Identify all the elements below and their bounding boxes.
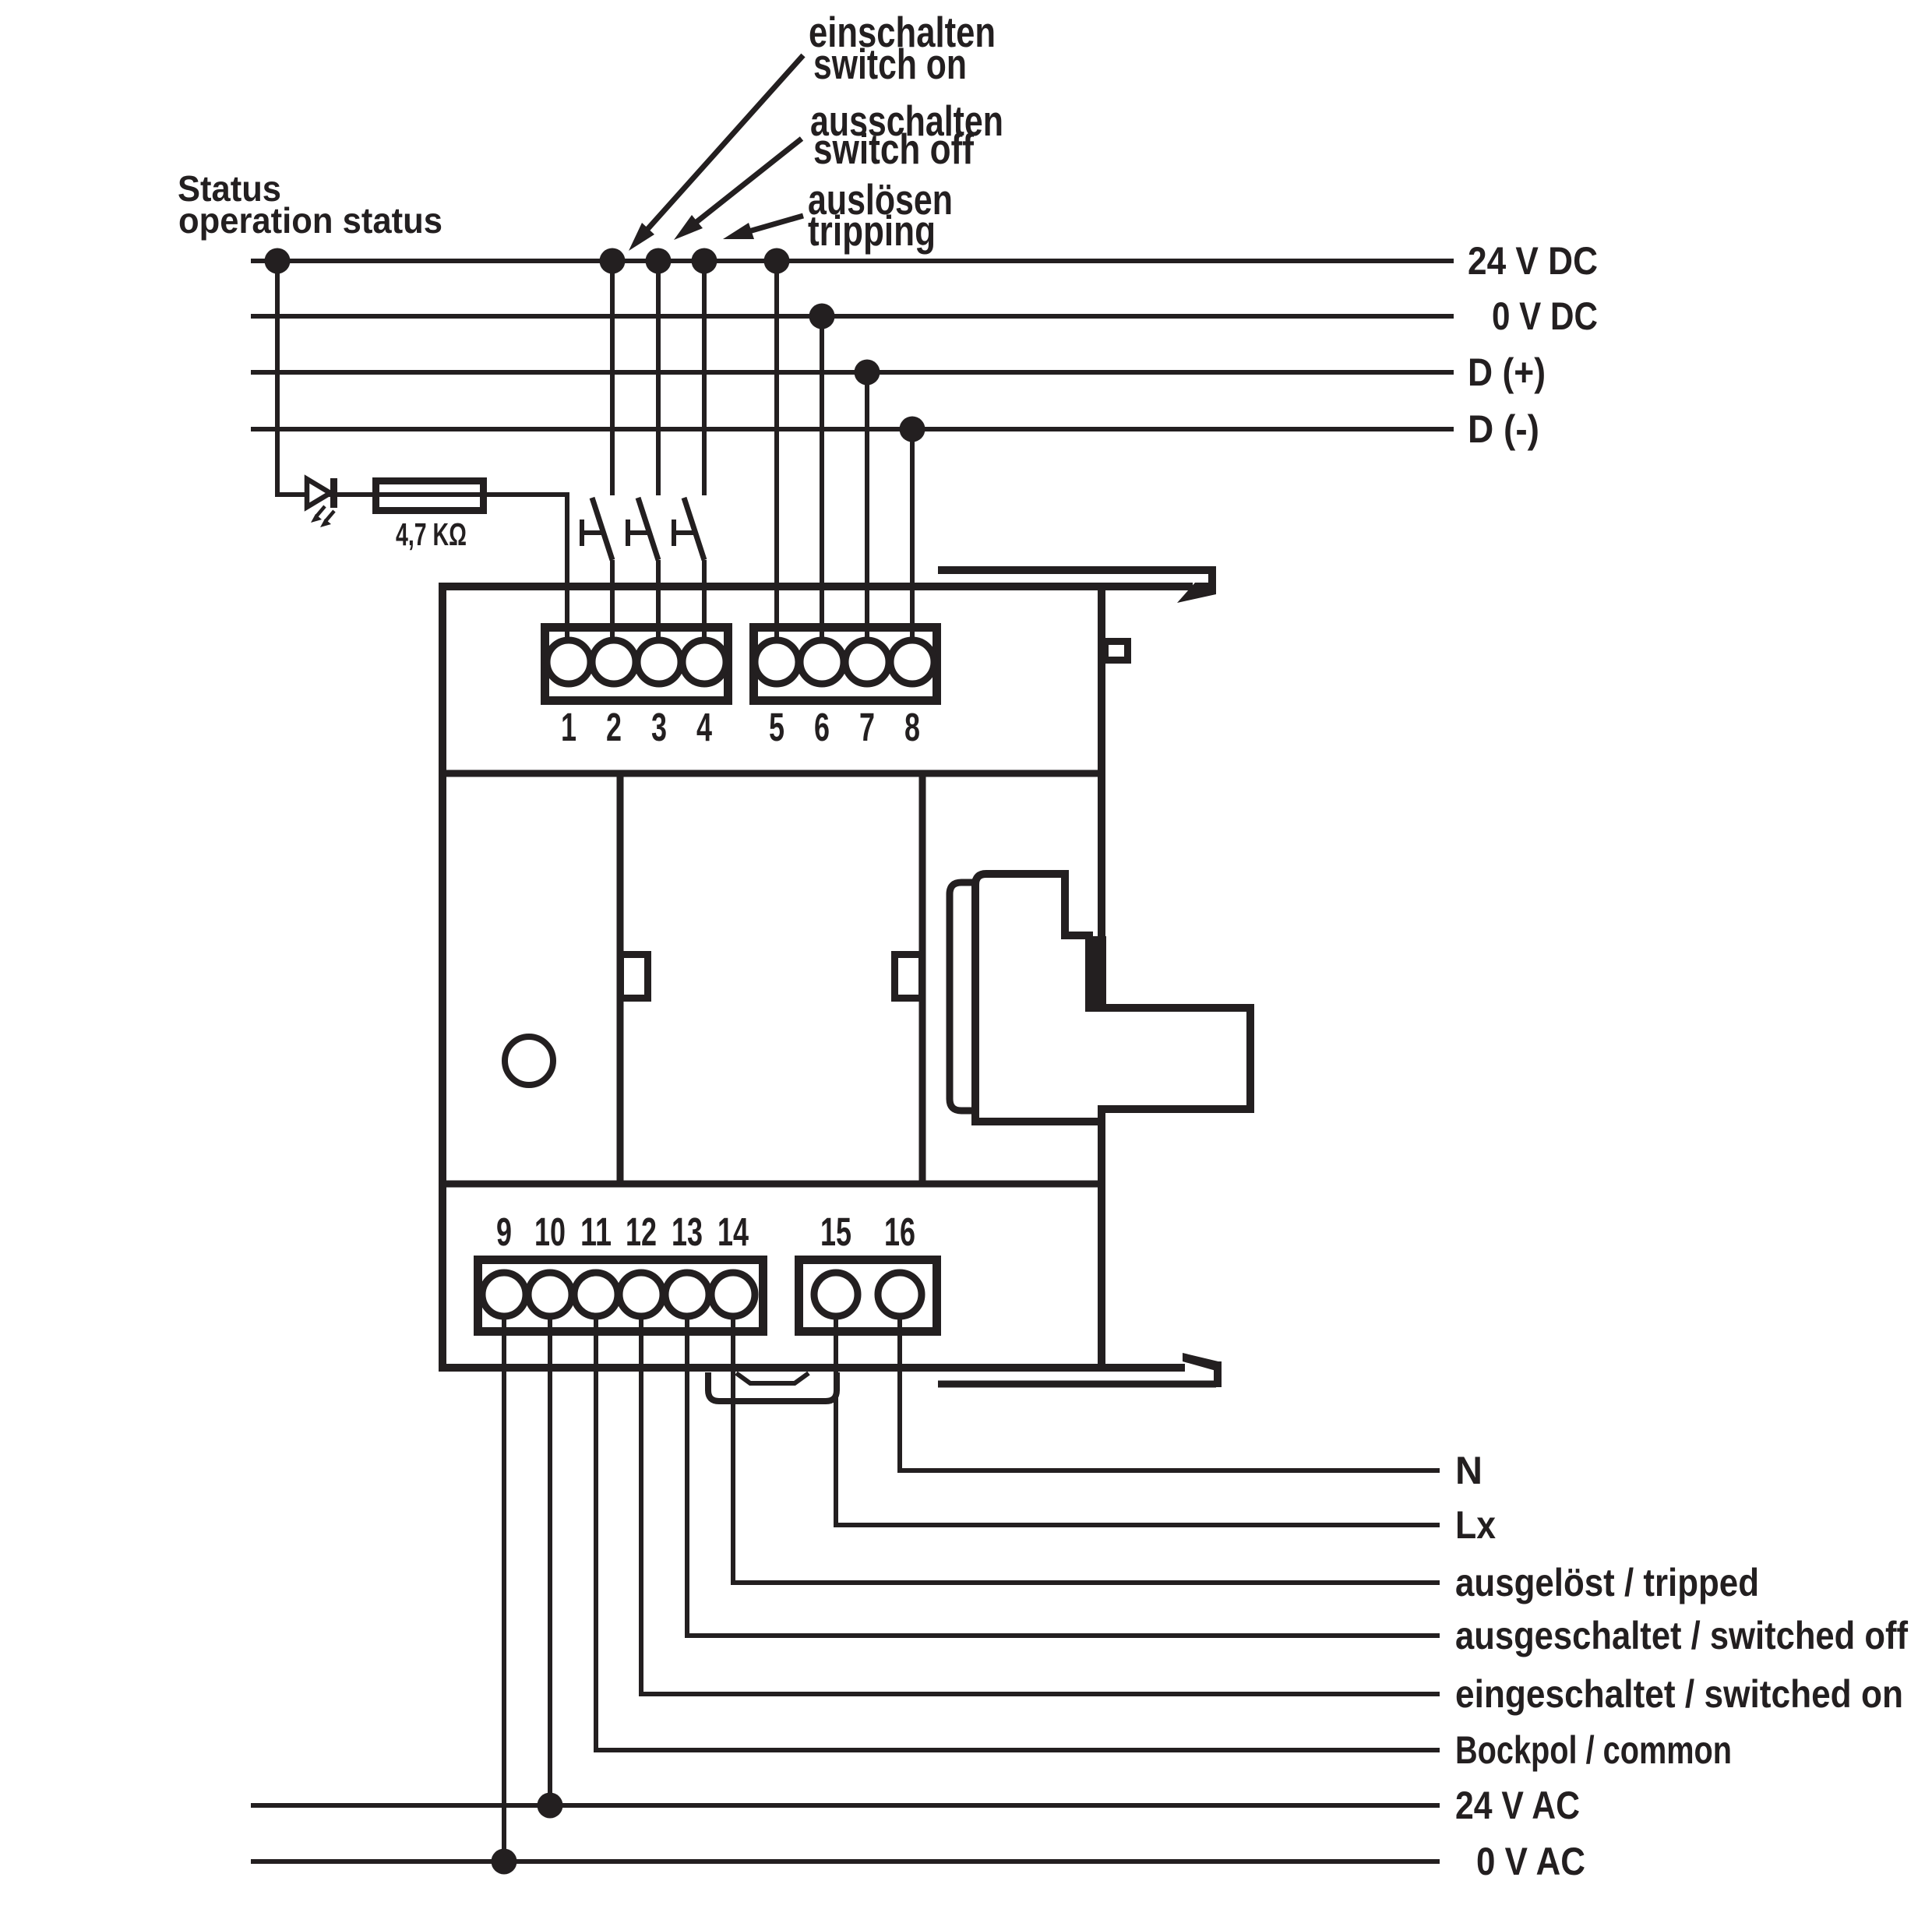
wire terminal 9 to 0VAC <box>502 1318 506 1861</box>
svg-text:2: 2 <box>606 705 622 749</box>
svg-text:12: 12 <box>626 1210 657 1254</box>
actuator tick tripping S3 <box>672 520 676 546</box>
svg-text:switch off: switch off <box>813 125 975 173</box>
LED light arrow 2 <box>326 511 334 521</box>
svg-text:10: 10 <box>534 1210 566 1254</box>
clip tab on left divider <box>621 955 648 999</box>
terminal block 9-14 <box>478 1260 763 1332</box>
svg-text:14: 14 <box>717 1210 749 1254</box>
handle latch notch <box>1086 936 1106 1006</box>
module divider vertical right <box>919 773 926 1184</box>
module divider lower <box>439 1181 1105 1188</box>
svg-text:16: 16 <box>884 1210 915 1254</box>
svg-text:24 V DC: 24 V DC <box>1468 239 1598 283</box>
wire 0 V DC bus <box>251 314 1454 319</box>
terminal block 1-4 <box>545 628 728 701</box>
wire lower switch off S2 <box>656 560 661 639</box>
contact blade switch off S2 <box>638 498 658 560</box>
svg-text:1: 1 <box>561 705 576 749</box>
svg-text:7: 7 <box>859 705 875 749</box>
terminal circle 5 <box>755 640 799 684</box>
svg-text:D (+): D (+) <box>1468 350 1546 394</box>
resistor R1 4.7k (fuse-style box) <box>376 481 484 511</box>
svg-text:4: 4 <box>696 705 712 749</box>
terminal circle 7 <box>845 640 889 684</box>
svg-text:15: 15 <box>820 1210 851 1254</box>
svg-text:3: 3 <box>651 705 667 749</box>
svg-text:operation status: operation status <box>178 200 442 241</box>
svg-text:5: 5 <box>769 705 784 749</box>
bottom DIN flange <box>938 1381 1216 1388</box>
terminal circle 8 <box>890 640 934 684</box>
junction dot wire 8 <box>900 417 925 442</box>
wire terminal 6 <box>820 316 824 639</box>
junction dot bus switch on S1 <box>600 248 626 274</box>
junction dot wire 6 <box>809 304 835 329</box>
terminal circle 6 <box>800 640 844 684</box>
wire lower tripping S3 <box>702 560 707 639</box>
actuator dash tripping S3 <box>674 530 696 535</box>
handle plate <box>950 882 980 1111</box>
module divider vertical left <box>617 773 624 1184</box>
wire terminal 16 N <box>900 1318 1440 1470</box>
terminal circle 16 <box>878 1273 922 1316</box>
svg-text:eingeschaltet / switched on: eingeschaltet / switched on <box>1455 1672 1903 1716</box>
leader arrow switch on <box>643 55 803 234</box>
wire lower switch on S1 <box>610 560 615 639</box>
wire terminal 12 eingeschaltet <box>641 1318 1440 1694</box>
wire terminal 10 to 24VAC <box>548 1318 552 1805</box>
wire upper tripping S3 <box>702 261 707 495</box>
svg-text:0 V AC: 0 V AC <box>1476 1840 1585 1883</box>
svg-text:8: 8 <box>904 705 920 749</box>
wire terminal 5 <box>774 261 779 639</box>
terminal circle 12 <box>619 1273 663 1316</box>
terminal circle 10 <box>528 1273 572 1316</box>
wire status branch <box>277 261 567 638</box>
indicator circle <box>505 1037 553 1085</box>
wire terminal 7 <box>865 372 869 639</box>
terminal circle 2 <box>592 640 636 684</box>
top DIN flange <box>938 566 1216 574</box>
module outline <box>439 583 1193 590</box>
terminal circle 15 <box>814 1273 858 1316</box>
wire 0 V AC bus <box>251 1859 1440 1864</box>
module divider upper <box>439 770 1105 777</box>
terminal circle 14 <box>711 1273 755 1316</box>
wire D(-) bus <box>251 427 1454 431</box>
clip tab on module right edge <box>1105 642 1128 660</box>
LED light arrow 1 <box>316 506 325 516</box>
terminal circle 13 <box>665 1273 709 1316</box>
handle body with arm <box>975 874 1250 1122</box>
terminal circle 1 <box>547 640 591 684</box>
actuator dash switch on S1 <box>582 530 605 535</box>
svg-text:tripping: tripping <box>808 206 936 255</box>
junction dot 24VAC <box>538 1793 563 1819</box>
junction dot 0VAC <box>492 1849 517 1875</box>
wire upper switch off S2 <box>656 261 661 495</box>
contact blade switch on S1 <box>592 498 612 560</box>
svg-text:0 V DC: 0 V DC <box>1492 294 1598 338</box>
junction dot wire 7 <box>855 360 880 386</box>
terminal circle 4 <box>682 640 726 684</box>
svg-text:6: 6 <box>814 705 830 749</box>
junction dot bus tripping S3 <box>692 248 717 274</box>
wire 24 V AC bus <box>251 1803 1440 1808</box>
actuator tick switch off S2 <box>626 520 630 546</box>
svg-text:switch on: switch on <box>813 40 967 88</box>
wire D(+) bus <box>251 370 1454 375</box>
svg-text:D (-): D (-) <box>1468 407 1539 451</box>
terminal circle 3 <box>637 640 681 684</box>
junction dot status <box>265 248 291 274</box>
svg-text:11: 11 <box>580 1210 612 1254</box>
terminal block 5-8 <box>754 628 937 701</box>
svg-text:24 V AC: 24 V AC <box>1455 1784 1580 1827</box>
leader arrow tripping <box>746 216 803 232</box>
actuator dash switch off S2 <box>628 530 650 535</box>
svg-text:ausgeschaltet / switched off: ausgeschaltet / switched off <box>1455 1614 1908 1657</box>
wire terminal 11 Bockpol <box>596 1318 1440 1750</box>
actuator tick switch on S1 <box>580 520 584 546</box>
wire terminal 13 ausgeschaltet <box>687 1318 1440 1636</box>
svg-text:ausgelöst / tripped: ausgelöst / tripped <box>1455 1561 1759 1604</box>
svg-text:Bockpol / common: Bockpol / common <box>1455 1728 1732 1772</box>
contact blade tripping S3 <box>684 498 704 560</box>
wire 24 V DC bus <box>251 259 1454 263</box>
LED D1 <box>307 479 330 507</box>
wire terminal 15 Lx <box>836 1318 1440 1525</box>
terminal circle 9 <box>482 1273 526 1316</box>
junction dot bus switch off S2 <box>646 248 672 274</box>
leader arrow switch off <box>693 139 802 225</box>
wire terminal 14 ausgeloest <box>733 1318 1440 1583</box>
DIN rail clip bottom <box>708 1372 837 1401</box>
svg-text:N: N <box>1455 1449 1482 1492</box>
wire upper switch on S1 <box>610 261 615 495</box>
terminal block 15-16 <box>799 1260 937 1332</box>
clip tab on right divider <box>895 955 922 999</box>
terminal circle 11 <box>574 1273 618 1316</box>
svg-text:4,7 KΩ: 4,7 KΩ <box>396 516 467 552</box>
wire terminal 8 <box>910 429 915 639</box>
svg-text:13: 13 <box>672 1210 703 1254</box>
junction dot wire 5 <box>764 248 790 274</box>
svg-text:9: 9 <box>496 1210 512 1254</box>
svg-text:Lx: Lx <box>1455 1503 1496 1547</box>
